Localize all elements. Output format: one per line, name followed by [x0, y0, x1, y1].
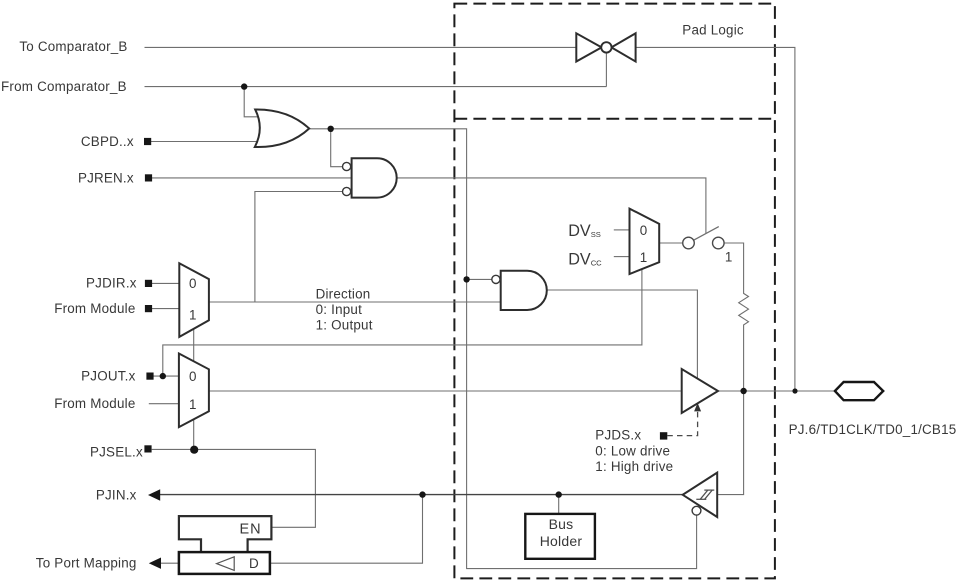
- svg-text:Holder: Holder: [540, 533, 583, 549]
- svg-text:PJ.6/TD1CLK/TD0_1/CB15: PJ.6/TD1CLK/TD0_1/CB15: [789, 422, 957, 437]
- svg-text:1: 1: [640, 250, 648, 265]
- svg-text:Direction: Direction: [316, 286, 371, 301]
- svg-text:To Port Mapping: To Port Mapping: [36, 556, 137, 571]
- svg-text:D: D: [249, 556, 259, 571]
- svg-text:DVSS: DVSS: [568, 222, 601, 240]
- svg-text:0: 0: [189, 369, 197, 384]
- svg-text:PJREN.x: PJREN.x: [78, 171, 134, 186]
- svg-text:1: Output: 1: Output: [316, 318, 373, 333]
- svg-text:CBPD..x: CBPD..x: [81, 134, 134, 149]
- svg-text:0: Input: 0: Input: [316, 302, 362, 317]
- svg-text:From Module: From Module: [54, 301, 135, 316]
- svg-text:From Module: From Module: [54, 396, 135, 411]
- svg-text:PJDS.x: PJDS.x: [595, 428, 641, 443]
- svg-text:PJOUT.x: PJOUT.x: [81, 368, 135, 383]
- svg-text:1: 1: [189, 308, 197, 323]
- svg-text:1: High drive: 1: High drive: [595, 459, 673, 474]
- svg-text:1: 1: [189, 397, 197, 412]
- svg-text:PJDIR.x: PJDIR.x: [86, 276, 137, 291]
- svg-text:EN: EN: [240, 522, 262, 538]
- svg-text:PJIN.x: PJIN.x: [96, 488, 137, 503]
- svg-text:1: 1: [725, 250, 733, 265]
- svg-text:0: 0: [189, 276, 197, 291]
- svg-text:0: Low drive: 0: Low drive: [595, 443, 670, 458]
- svg-text:From Comparator_B: From Comparator_B: [1, 79, 127, 94]
- svg-text:DVCC: DVCC: [568, 251, 602, 269]
- svg-text:PJSEL.x: PJSEL.x: [90, 445, 143, 460]
- svg-text:Pad Logic: Pad Logic: [682, 22, 744, 37]
- svg-text:To Comparator_B: To Comparator_B: [19, 39, 127, 54]
- svg-text:0: 0: [640, 223, 648, 238]
- svg-text:Bus: Bus: [549, 516, 574, 532]
